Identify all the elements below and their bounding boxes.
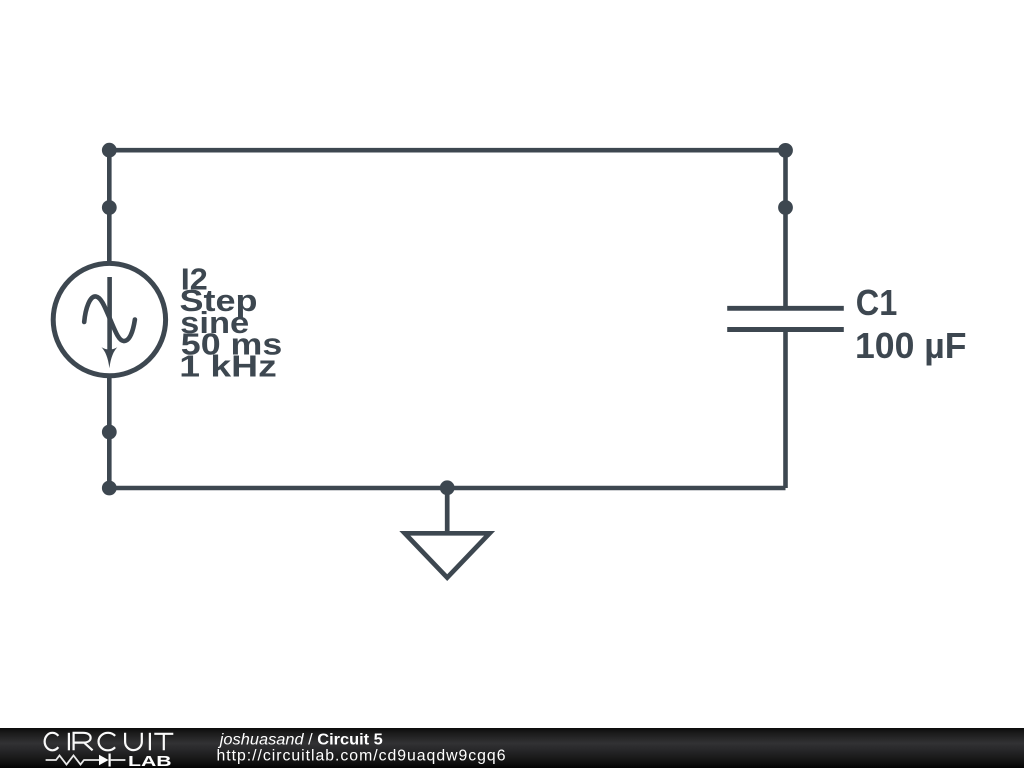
svg-text:C1: C1 (856, 282, 898, 323)
svg-text:http://circuitlab.com/cd9uaqdw: http://circuitlab.com/cd9uaqdw9cgq6 (217, 748, 506, 765)
svg-text:LAB: LAB (128, 754, 172, 768)
node dot bottom-left (102, 481, 117, 496)
capacitor C1 (727, 308, 844, 329)
CircuitLab logo wordmark CIRCUIT (45, 733, 174, 751)
node dot I2 bottom terminal (102, 425, 117, 440)
ground (405, 488, 490, 578)
wire right lower segment (783, 330, 788, 489)
wire top net from I2 to C1 (109, 148, 785, 153)
node dot top-right (778, 143, 793, 158)
wire right upper segment (783, 150, 788, 308)
wire left lower segment (107, 374, 112, 488)
CircuitLab logo resistor zigzag (46, 756, 99, 765)
svg-text:joshuasand / Circuit 5: joshuasand / Circuit 5 (218, 731, 384, 748)
node dot ground junction (440, 480, 455, 495)
node dot C1 top terminal (778, 200, 793, 215)
svg-text:1 kHz: 1 kHz (179, 350, 276, 384)
node dot I2 top terminal (102, 200, 117, 215)
wire left upper segment (107, 150, 112, 266)
svg-text:100 µF: 100 µF (855, 325, 967, 366)
current source I2 (53, 263, 165, 375)
CircuitLab logo diode (99, 754, 125, 767)
wire bottom net (109, 486, 785, 491)
I2 value label (179, 262, 282, 383)
node dot top-left (102, 143, 117, 158)
C1 value label (855, 282, 967, 366)
